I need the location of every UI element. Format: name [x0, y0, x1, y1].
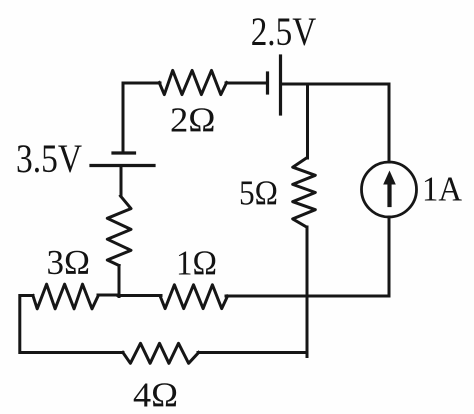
resistor R5 4ohm (bottom) — [123, 343, 199, 363]
wire 2-ohm to battery 2.5V — [226, 82, 266, 85]
resistor R3 1ohm — [160, 285, 228, 309]
wire 1-ohm to center node — [118, 294, 161, 297]
wire vertical resistor to center node — [118, 266, 121, 297]
svg-text:4Ω: 4Ω — [133, 376, 178, 414]
current source I1 arrow — [387, 182, 391, 205]
wire top-left corner to 2-ohm resistor — [123, 83, 160, 152]
svg-text:3.5V: 3.5V — [16, 136, 82, 181]
wire 5-ohm bottom through node to bottom rail — [306, 227, 309, 357]
resistor R4 3ohm — [33, 284, 98, 309]
wire 4-ohm to right end of bottom rail — [198, 351, 307, 354]
wire 3-ohm to left corner and down — [20, 296, 123, 353]
svg-text:3Ω: 3Ω — [47, 243, 91, 282]
battery V1 2.5V short plate — [266, 73, 269, 93]
battery V1 2.5V long plate — [279, 56, 282, 114]
wire 3-ohm right lead — [98, 294, 118, 297]
battery V2 3.5V short plate — [113, 151, 135, 154]
svg-text:5Ω: 5Ω — [239, 174, 278, 213]
wire battery to top-right corner — [281, 84, 390, 162]
svg-text:2Ω: 2Ω — [170, 101, 216, 140]
svg-text:1Ω: 1Ω — [176, 244, 217, 283]
wire battery 3.5V to vertical resistor — [120, 166, 123, 197]
battery V2 3.5V long plate — [91, 164, 154, 167]
svg-text:2.5V: 2.5V — [251, 9, 317, 54]
resistor R1 2ohm (top) — [159, 70, 227, 94]
current source I1 arrowhead — [383, 171, 396, 185]
svg-text:1A: 1A — [422, 170, 463, 209]
current source I1 1A circle — [362, 162, 417, 217]
resistor R6 unlabeled (vertical, below 3.5V) — [107, 196, 131, 266]
wire current source to mid rail corner — [307, 217, 389, 296]
resistor R2 5ohm (vertical) — [293, 158, 316, 227]
node junction 5-ohm branch top — [306, 84, 309, 158]
wire mid rail 5-ohm node to 1-ohm — [226, 295, 307, 298]
